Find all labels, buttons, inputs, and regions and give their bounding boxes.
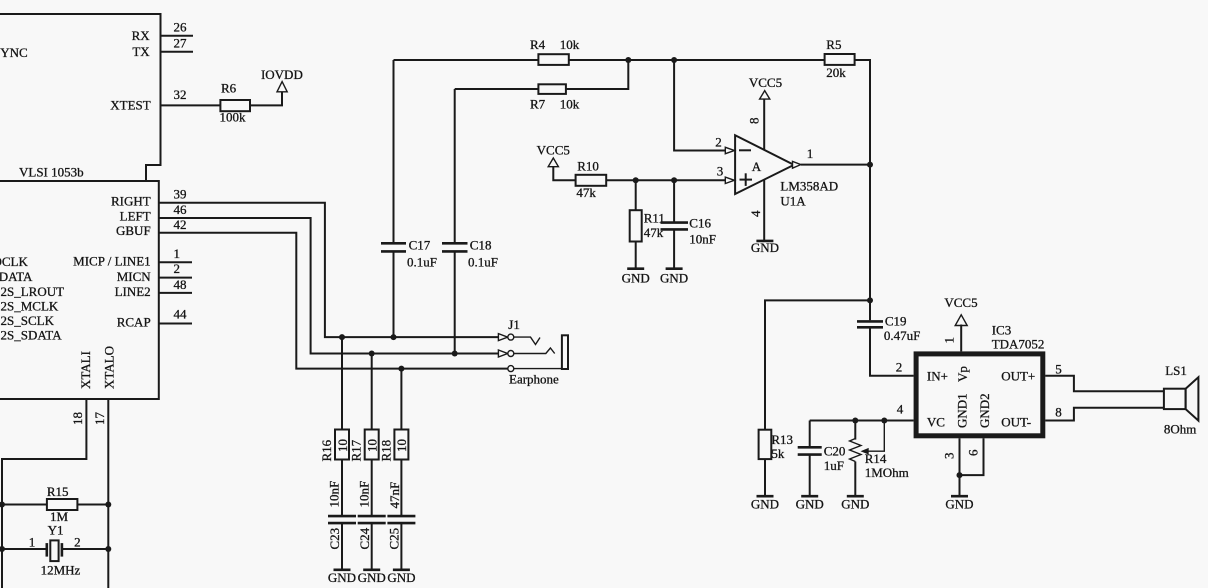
svg-text:RIGHT: RIGHT — [111, 193, 151, 208]
svg-text:A: A — [752, 159, 762, 174]
svg-text:R17: R17 — [349, 439, 364, 461]
svg-text:26: 26 — [174, 20, 188, 35]
svg-text:10nF: 10nF — [689, 231, 716, 246]
svg-text:10nF: 10nF — [327, 481, 342, 508]
svg-text:GND: GND — [945, 497, 973, 512]
svg-text:R16: R16 — [319, 439, 334, 461]
svg-text:47k: 47k — [576, 185, 596, 200]
pin 1 MICP stub — [159, 246, 192, 262]
svg-text:27: 27 — [174, 36, 188, 51]
svg-text:LS1: LS1 — [1165, 363, 1187, 378]
ground C20 — [796, 496, 824, 512]
svg-text:3: 3 — [717, 164, 724, 179]
wire output node down to C19 — [867, 165, 873, 321]
resistor R4 10k — [394, 37, 825, 65]
svg-text:R15: R15 — [47, 484, 69, 499]
svg-text:Vp: Vp — [955, 366, 970, 382]
svg-text:1MOhm: 1MOhm — [865, 465, 909, 480]
svg-text:LM358AD: LM358AD — [780, 179, 838, 194]
node XTALO junction dots — [105, 502, 111, 508]
svg-text:MICN: MICN — [117, 269, 152, 284]
svg-text:OUT+: OUT+ — [1001, 369, 1035, 384]
wire branch to R13 — [765, 300, 870, 429]
svg-text:U1A: U1A — [780, 194, 806, 209]
svg-text:C20: C20 — [824, 443, 846, 458]
node R4/R7 junction dot — [625, 57, 631, 63]
ground C16 — [660, 269, 688, 286]
ground C24 — [358, 570, 386, 585]
resistor R10 47k — [576, 159, 735, 201]
svg-text:GND: GND — [796, 497, 824, 512]
svg-text:2S_MCLK: 2S_MCLK — [1, 298, 59, 313]
svg-text:1: 1 — [174, 246, 181, 261]
svg-text:LEFT: LEFT — [120, 208, 151, 223]
pin 48 LINE2 stub — [159, 277, 192, 293]
svg-text:LINE2: LINE2 — [115, 284, 151, 299]
svg-text:GND: GND — [751, 240, 779, 255]
svg-text:C16: C16 — [689, 216, 711, 231]
wire R6 to IOVDD — [250, 92, 282, 106]
IC3 pin 4 VC row — [810, 402, 914, 424]
svg-text:MICP / LINE1: MICP / LINE1 — [73, 254, 151, 269]
svg-text:46: 46 — [174, 202, 188, 217]
capacitor C19 0.47uF — [857, 313, 920, 376]
IC3 pin 6 wire — [957, 438, 984, 478]
svg-text:Y1: Y1 — [48, 523, 64, 538]
svg-text:39: 39 — [174, 187, 187, 202]
svg-text:C25: C25 — [387, 528, 402, 550]
pin 44 RCAP stub — [159, 306, 192, 323]
resistor R15 1M — [2, 484, 108, 524]
svg-text:10k: 10k — [560, 96, 580, 111]
svg-text:C17: C17 — [409, 237, 431, 252]
svg-text:12MHz: 12MHz — [41, 563, 81, 578]
resistor R17 10 — [349, 354, 380, 517]
op-amp pin 4 wire — [748, 180, 764, 241]
node row2 junction dots — [369, 351, 375, 357]
IC3 pin 5 OUT+ wire — [1045, 361, 1164, 391]
node row3 junction dot — [398, 366, 404, 372]
svg-text:1: 1 — [807, 146, 814, 161]
svg-text:10: 10 — [335, 439, 350, 452]
svg-text:47nF: 47nF — [387, 482, 402, 509]
svg-text:TDA7052: TDA7052 — [992, 337, 1045, 352]
resistor R14 1MOhm adjustable — [850, 421, 909, 497]
svg-text:Earphone: Earphone — [509, 372, 559, 387]
svg-text:1: 1 — [29, 535, 36, 550]
ground R13 — [751, 496, 779, 512]
svg-text:GND: GND — [358, 570, 386, 585]
speaker LS1 8Ohm — [1164, 363, 1199, 436]
IC3 pin 8 OUT- wire — [1045, 405, 1164, 421]
svg-text:2S_SDATA: 2S_SDATA — [1, 327, 63, 342]
svg-text:2S_SCLK: 2S_SCLK — [1, 313, 55, 328]
svg-text:47k: 47k — [644, 225, 664, 240]
svg-text:4: 4 — [897, 402, 904, 417]
svg-text:2S_LROUT: 2S_LROUT — [1, 284, 65, 299]
capacitor C24 10nF — [356, 481, 385, 570]
capacitor C18 0.1uF — [442, 89, 498, 354]
capacitor C16 10nF — [661, 180, 717, 268]
resistor R16 10 — [319, 337, 350, 516]
svg-text:OUT-: OUT- — [1001, 414, 1031, 429]
capacitor C20 1uF — [798, 421, 846, 497]
svg-text:IOVDD: IOVDD — [261, 67, 303, 82]
svg-text:R10: R10 — [577, 159, 599, 174]
svg-text:10: 10 — [365, 439, 380, 452]
svg-text:2: 2 — [896, 359, 903, 374]
resistor R5 20k — [825, 37, 870, 165]
svg-text:R5: R5 — [826, 37, 841, 52]
svg-text:C23: C23 — [327, 528, 342, 550]
node row1 junction dots — [339, 334, 345, 340]
svg-text:8: 8 — [1055, 405, 1062, 420]
resistor R18 10 — [379, 369, 410, 516]
power IOVDD — [261, 67, 303, 92]
svg-text:44: 44 — [174, 306, 188, 321]
pin 17 XTALO wire — [92, 399, 108, 588]
svg-text:TX: TX — [132, 44, 150, 59]
svg-text:0.1uF: 0.1uF — [407, 255, 437, 270]
connector J1 Earphone — [498, 317, 568, 386]
svg-text:32: 32 — [174, 87, 187, 102]
svg-text:SDATA: SDATA — [0, 269, 33, 284]
svg-text:RX: RX — [132, 28, 151, 43]
resistor R13 5k — [759, 430, 793, 497]
svg-text:48: 48 — [174, 277, 187, 292]
svg-text:R18: R18 — [379, 440, 394, 462]
svg-text:10k: 10k — [560, 37, 580, 52]
svg-text:17: 17 — [92, 412, 107, 426]
pin 26 RX stub — [161, 20, 194, 36]
svg-text:GND: GND — [751, 497, 779, 512]
svg-text:5: 5 — [1055, 361, 1062, 376]
ground op-amp — [751, 240, 779, 255]
power VCC5 at op-amp pin 8 — [747, 75, 783, 150]
power VCC5 at R10 — [537, 143, 576, 181]
svg-text:C24: C24 — [357, 527, 372, 549]
wire feedback to op-amp pin 2 — [671, 57, 734, 154]
svg-text:1uF: 1uF — [824, 458, 844, 473]
svg-text:XTALO: XTALO — [102, 346, 117, 389]
svg-text:R13: R13 — [771, 432, 793, 447]
crystal Y1 12MHz — [2, 523, 108, 578]
pin 18 XTALI wire — [2, 399, 86, 588]
svg-text:2: 2 — [174, 261, 181, 276]
op-amp U1A LM358AD — [735, 135, 838, 208]
pin 46 LEFT wire — [159, 202, 499, 354]
svg-text:8: 8 — [747, 118, 762, 125]
svg-text:1: 1 — [942, 337, 957, 344]
svg-text:5k: 5k — [771, 446, 785, 461]
svg-text:R4: R4 — [530, 37, 546, 52]
resistor R7 10k — [455, 60, 629, 111]
node pin3 row dots — [633, 177, 639, 183]
svg-text:100k: 100k — [220, 110, 247, 125]
svg-text:2: 2 — [715, 135, 722, 150]
pin 42 GBUF wire — [159, 217, 508, 369]
capacitor C23 10nF — [327, 481, 357, 570]
IC3 TDA7052 block — [916, 322, 1044, 436]
svg-text:42: 42 — [174, 217, 187, 232]
svg-text:GND1: GND1 — [955, 393, 970, 428]
svg-text:R14: R14 — [865, 451, 887, 466]
svg-text:8Ohm: 8Ohm — [1164, 421, 1197, 436]
svg-text:C19: C19 — [885, 313, 907, 328]
pin 32 XTEST wire — [161, 87, 221, 105]
svg-text:0.1uF: 0.1uF — [468, 255, 498, 270]
pin 39 RIGHT wire — [159, 187, 499, 338]
svg-text:VCC5: VCC5 — [749, 75, 782, 90]
svg-text:VLSI 1053b: VLSI 1053b — [19, 165, 84, 180]
svg-text:GND: GND — [660, 270, 688, 285]
svg-text:R6: R6 — [221, 81, 237, 96]
capacitor C17 0.1uF — [381, 60, 437, 337]
ground R14 — [841, 496, 869, 512]
svg-text:18: 18 — [70, 412, 85, 425]
svg-text:3: 3 — [942, 453, 957, 460]
svg-text:VC: VC — [927, 414, 945, 429]
svg-text:GND: GND — [328, 570, 356, 585]
svg-text:GND2: GND2 — [977, 393, 992, 428]
svg-text:GBUF: GBUF — [116, 223, 151, 238]
node XTALI junction dots — [0, 502, 5, 508]
svg-text:VCC5: VCC5 — [944, 295, 977, 310]
ground IC3 — [945, 496, 973, 512]
ground C23 — [328, 570, 356, 585]
svg-text:C18: C18 — [470, 237, 492, 252]
svg-text:XTEST: XTEST — [110, 98, 151, 113]
svg-text:10nF: 10nF — [356, 481, 371, 508]
svg-text:DCLK: DCLK — [0, 254, 29, 269]
capacitor C25 47nF — [387, 482, 416, 570]
resistor R11 47k — [630, 180, 665, 268]
svg-text:4: 4 — [748, 210, 763, 217]
svg-text:20k: 20k — [826, 65, 846, 80]
svg-text:GND: GND — [387, 570, 415, 585]
op-amp output pin 1 wire — [793, 146, 874, 168]
svg-text:6: 6 — [966, 449, 981, 456]
svg-text:VCC5: VCC5 — [537, 143, 570, 158]
svg-text:J1: J1 — [508, 317, 520, 332]
pin 2 MICN stub — [159, 261, 192, 278]
svg-text:10: 10 — [394, 439, 409, 452]
pin 27 TX stub — [161, 36, 194, 52]
svg-text:2: 2 — [74, 535, 81, 550]
ground C25 — [387, 570, 415, 585]
svg-text:RCAP: RCAP — [117, 315, 151, 330]
svg-text:GND: GND — [841, 497, 869, 512]
svg-text:0.47uF: 0.47uF — [884, 328, 920, 343]
IC U? VLSI 1053b lower block outline — [0, 181, 159, 399]
svg-text:IC3: IC3 — [992, 322, 1012, 337]
svg-text:R7: R7 — [530, 96, 546, 111]
ground R11 — [622, 269, 650, 286]
svg-text:SYNC: SYNC — [0, 45, 28, 60]
power VCC5 at IC3 pin 1 — [942, 295, 978, 351]
svg-text:GND: GND — [622, 270, 650, 285]
resistor R6 100k — [220, 81, 251, 125]
svg-text:XTALI: XTALI — [78, 351, 93, 389]
svg-text:IN+: IN+ — [927, 369, 948, 384]
IC3 pin 3 wire — [942, 438, 960, 496]
IC U? VLSI 1053b upper block outline — [0, 14, 161, 181]
